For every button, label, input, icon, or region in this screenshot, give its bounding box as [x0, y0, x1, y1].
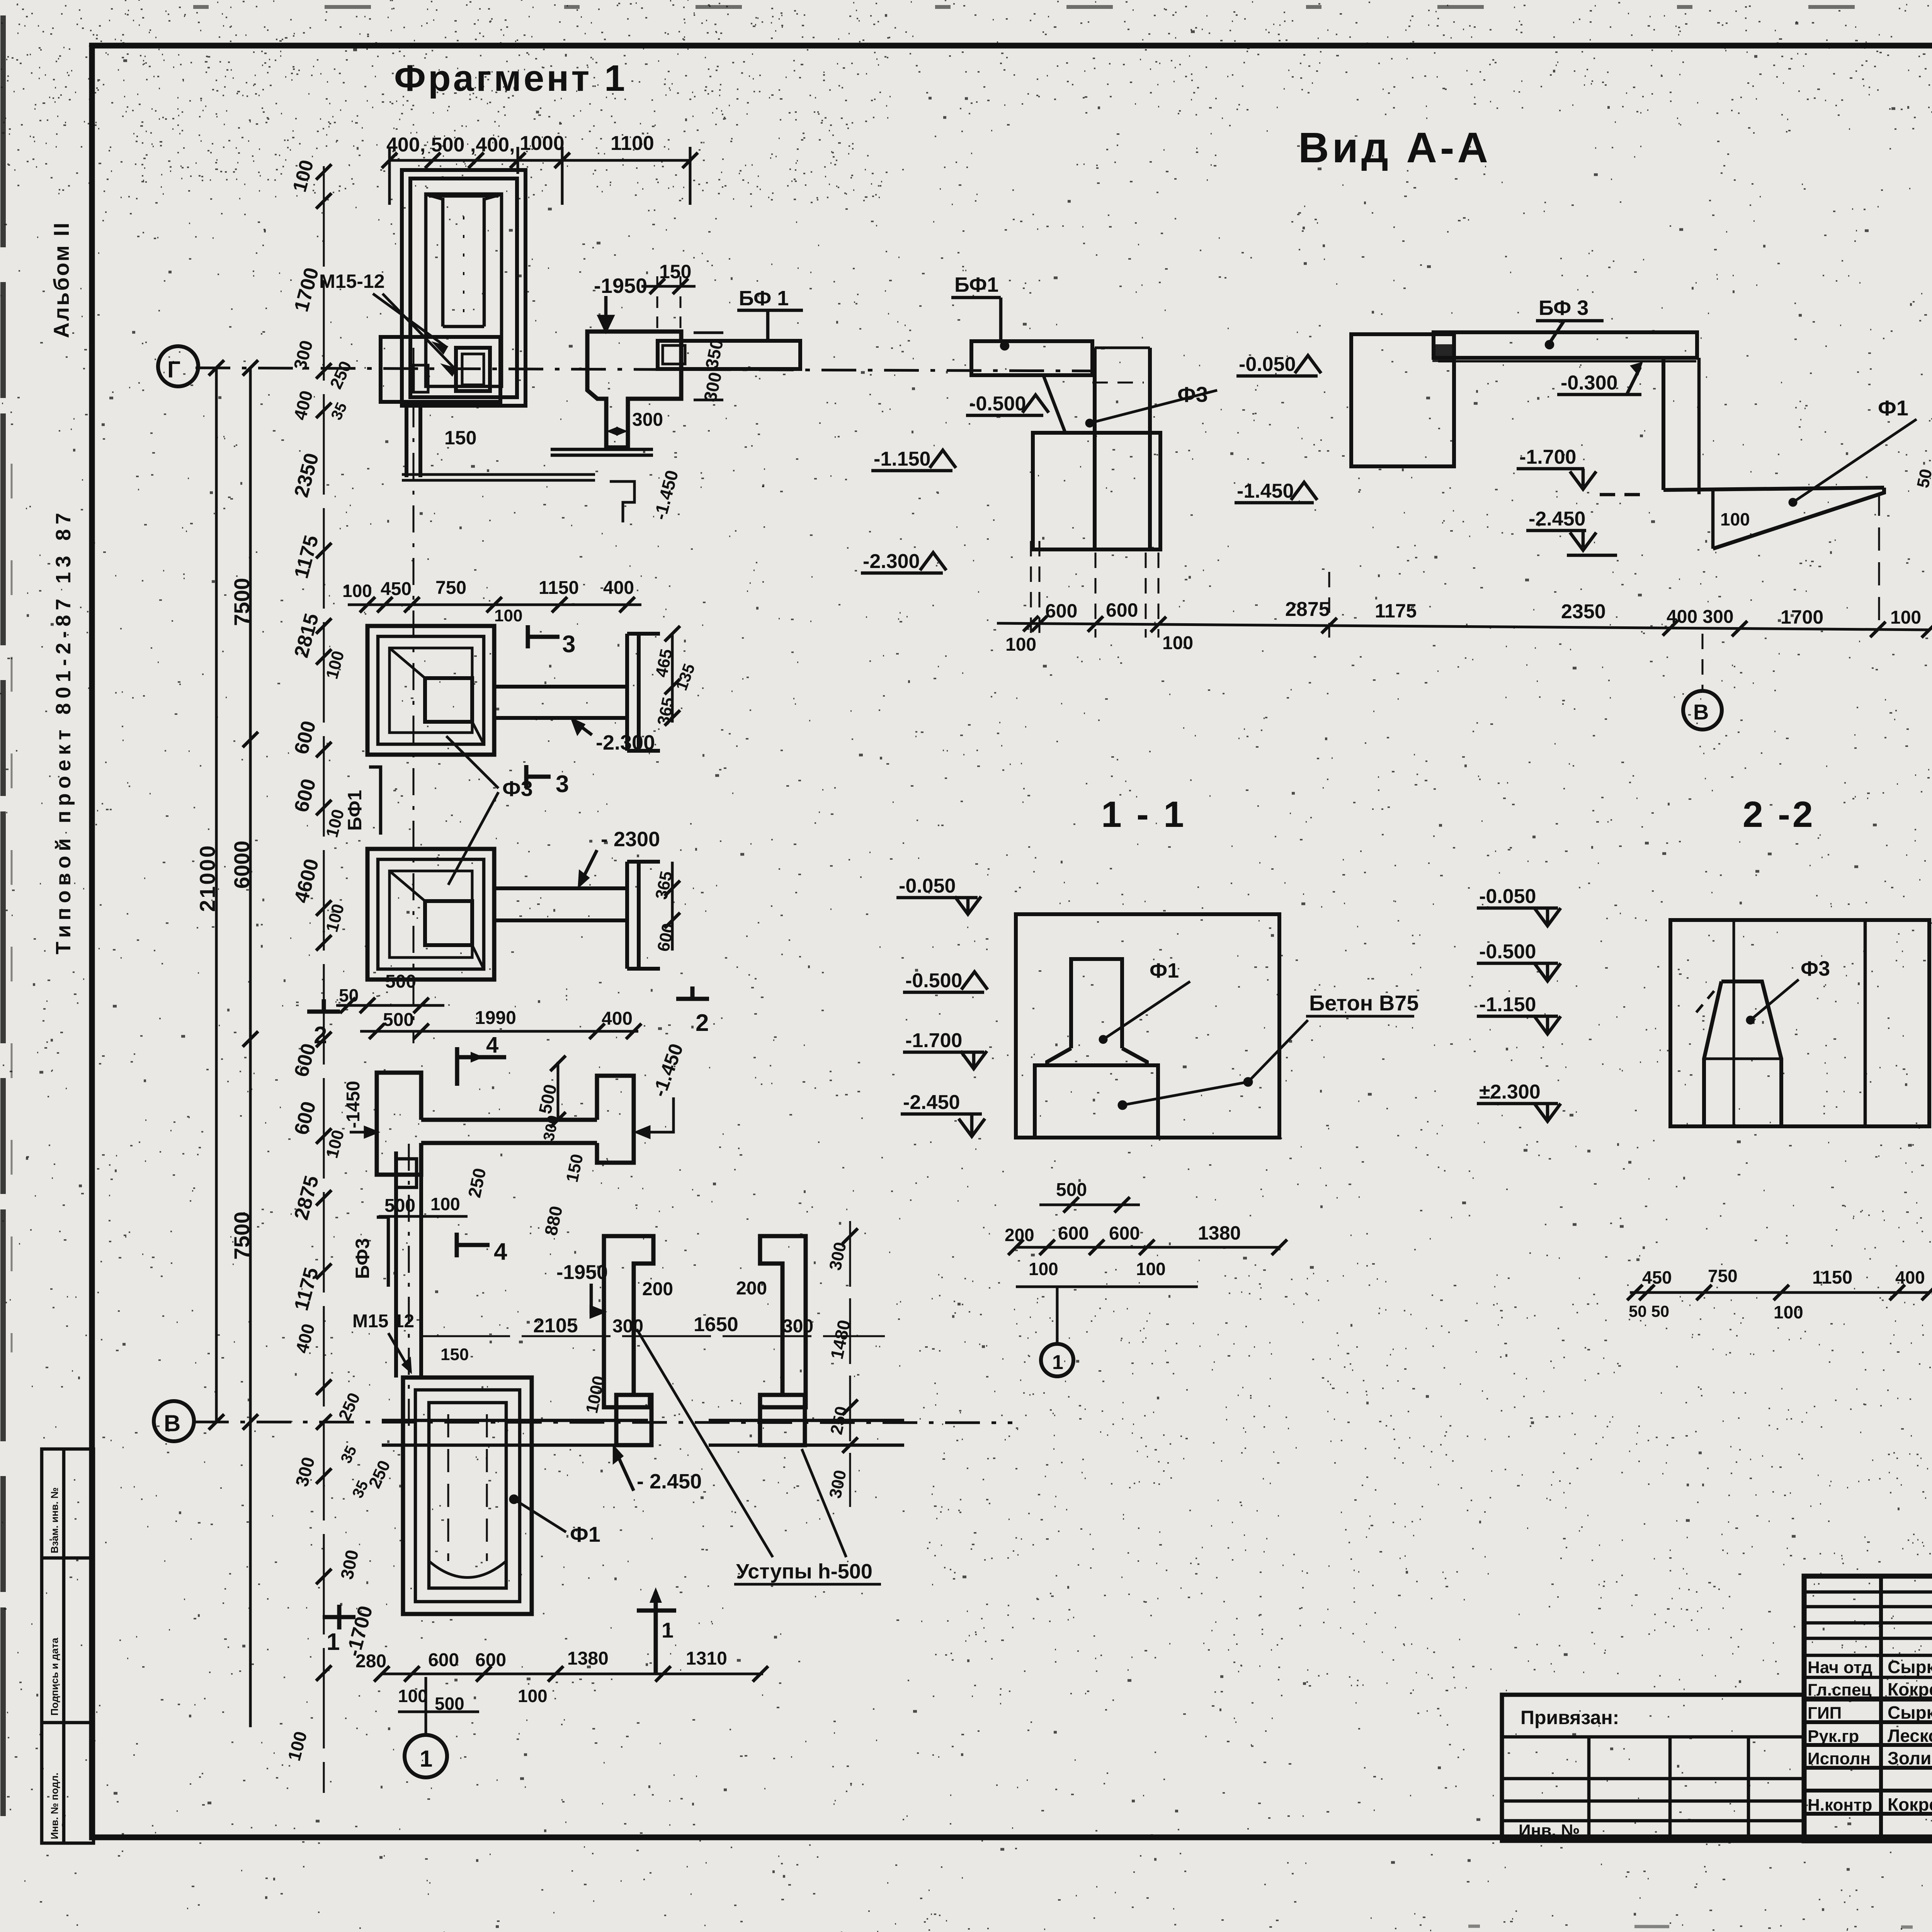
svg-text:100: 100: [398, 1686, 428, 1706]
BF1 rotated label with bracket: [344, 767, 381, 835]
svg-text:100: 100: [1774, 1302, 1803, 1322]
svg-text:1650: 1650: [694, 1313, 738, 1336]
svg-text:Инв. №: Инв. №: [1519, 1821, 1580, 1840]
svg-text:4: 4: [486, 1032, 498, 1058]
svg-text:-1.150: -1.150: [874, 448, 930, 470]
svg-text:150: 150: [444, 427, 476, 449]
svg-text:Инв. № подл.: Инв. № подл.: [49, 1772, 60, 1839]
svg-text:-1450: -1450: [343, 1081, 364, 1128]
wall strip below: [405, 402, 408, 477]
stakan small rect: [456, 348, 490, 391]
svg-text:Ф1: Ф1: [1150, 959, 1179, 982]
svg-text:100: 100: [430, 1194, 460, 1214]
bar to right: [494, 685, 627, 689]
svg-text:100: 100: [518, 1686, 548, 1706]
axis B wall band: [382, 1395, 904, 1445]
F1 wedge footing: [1663, 488, 1884, 490]
svg-text:100: 100: [1890, 607, 1921, 628]
right side small dims of square1: [652, 626, 699, 727]
svg-text:1150: 1150: [1812, 1267, 1852, 1288]
outer rect: [402, 170, 526, 406]
svg-text:280: 280: [355, 1651, 386, 1672]
column: [1093, 348, 1097, 549]
svg-text:100: 100: [342, 581, 372, 601]
svg-text:750: 750: [1708, 1266, 1738, 1286]
label M15-12 with leaders: [319, 270, 455, 374]
svg-text:Гл.спец: Гл.спец: [1808, 1680, 1872, 1699]
svg-text:4: 4: [494, 1238, 507, 1265]
svg-text:БФ 3: БФ 3: [1539, 296, 1588, 320]
svg-text:500: 500: [1056, 1180, 1087, 1200]
svg-text:Золина: Золина: [1888, 1748, 1932, 1768]
long dim line through middle: [421, 1335, 885, 1337]
svg-text:БФ 1: БФ 1: [739, 287, 789, 310]
svg-text:-0.050: -0.050: [899, 875, 956, 897]
svg-text:Ф3: Ф3: [502, 776, 533, 801]
svg-text:-0.500: -0.500: [1479, 940, 1536, 963]
horizontals left stack: [1804, 1590, 1932, 1594]
svg-text:М15 12: М15 12: [352, 1311, 414, 1332]
svg-text:1: 1: [662, 1618, 673, 1642]
svg-text:-1.150: -1.150: [1479, 993, 1536, 1016]
svg-text:1990: 1990: [475, 1008, 516, 1028]
svg-text:600: 600: [1058, 1223, 1089, 1244]
svg-text:-0.300: -0.300: [1561, 372, 1617, 394]
section flag 2 right: [676, 986, 709, 1036]
svg-text:В: В: [1693, 700, 1709, 724]
svg-text:-2.300: -2.300: [863, 550, 920, 573]
svg-text:1150: 1150: [539, 578, 579, 598]
svg-text:БФ3: БФ3: [352, 1238, 373, 1279]
svg-text:Лесковская: Лесковская: [1888, 1726, 1932, 1746]
svg-text:500: 500: [385, 971, 416, 992]
BF3 beam: [1434, 332, 1697, 358]
section flag 4 lower: [457, 1233, 507, 1265]
fine chain rotated labels: [284, 158, 377, 1763]
svg-text:Ф1: Ф1: [570, 1522, 600, 1546]
150 dim: [641, 285, 696, 288]
svg-text:Сыркин: Сыркин: [1888, 1657, 1932, 1677]
wall line under BF1: [551, 448, 653, 451]
svg-text:100: 100: [1720, 509, 1750, 529]
7500/6000/7500 dim line: [249, 368, 252, 1727]
svg-text:-0.500: -0.500: [905, 969, 962, 992]
verticals: [1879, 1576, 1883, 1841]
svg-text:3: 3: [556, 771, 569, 798]
svg-text:600: 600: [428, 1650, 459, 1670]
svg-text:300: 300: [782, 1316, 813, 1337]
svg-text:-2.450: -2.450: [1529, 508, 1585, 530]
svg-text:600: 600: [1106, 599, 1138, 621]
svg-text:-1950: -1950: [556, 1261, 608, 1284]
svg-text:100: 100: [1162, 633, 1193, 653]
axis circle Г: [158, 346, 198, 386]
margin stamp boxes bottom-left: [42, 1449, 94, 1843]
svg-text:Кокреб: Кокреб: [1888, 1794, 1932, 1815]
svg-text:100: 100: [1136, 1259, 1166, 1279]
svg-text:450: 450: [381, 579, 412, 599]
svg-text:600: 600: [1045, 600, 1077, 622]
svg-text:150: 150: [440, 1345, 469, 1364]
innermost prism: [441, 198, 445, 327]
svg-text:Взам. инв. №: Взам. инв. №: [49, 1487, 60, 1553]
-2.300 label with arrow (upper): [573, 720, 655, 754]
svg-text:1100: 1100: [611, 132, 654, 155]
svg-text:500: 500: [384, 1196, 415, 1216]
svg-text:В: В: [164, 1410, 180, 1436]
svg-text:1: 1: [327, 1629, 340, 1655]
svg-text:-1.450: -1.450: [1237, 480, 1294, 502]
svg-text:50 50: 50 50: [1629, 1302, 1669, 1320]
svg-text:- 2.450: - 2.450: [637, 1470, 702, 1493]
bottom dims: [1630, 1291, 1929, 1294]
svg-text:450: 450: [1642, 1267, 1672, 1287]
svg-text:БФ1: БФ1: [954, 273, 998, 296]
slab: [971, 341, 1160, 549]
fine chain dim line: [323, 166, 325, 1793]
svg-text:Вид А-А: Вид А-А: [1298, 124, 1491, 172]
svg-text:Исполн: Исполн: [1808, 1749, 1871, 1768]
inner glass rect: [426, 194, 502, 386]
-2300 label above square2 bar: [580, 828, 660, 885]
base block: [1033, 433, 1160, 549]
svg-text:750: 750: [435, 578, 466, 598]
svg-text:500: 500: [383, 1010, 414, 1030]
svg-text:2 -2: 2 -2: [1743, 794, 1815, 835]
top plan detail: column footing with glass (stakan): [381, 170, 653, 1043]
svg-text:7500: 7500: [230, 1211, 254, 1260]
svg-text:Нач отд: Нач отд: [1808, 1658, 1872, 1677]
overall 21000 dim line: [215, 368, 218, 1422]
svg-text:400: 400: [603, 578, 634, 598]
svg-text:1310: 1310: [686, 1648, 727, 1669]
F3 label with leaders: [446, 736, 533, 885]
svg-text:-0.050: -0.050: [1239, 353, 1296, 376]
F3 pedestal: [1696, 920, 1865, 1126]
axis circle 1: [1041, 1344, 1073, 1376]
svg-text:600: 600: [1109, 1223, 1140, 1244]
svg-text:Рук.гр: Рук.гр: [1808, 1727, 1859, 1746]
svg-text:-1.700: -1.700: [1519, 446, 1576, 468]
section flag 2 left: [307, 999, 340, 1049]
pit outline: [1016, 914, 1279, 1138]
svg-text:3: 3: [562, 631, 575, 658]
svg-text:100: 100: [494, 606, 522, 625]
left attachment box of title block: [1502, 1695, 1804, 1841]
svg-text:500: 500: [435, 1694, 464, 1714]
bottom ledge rect: [381, 337, 500, 402]
section flag 1 (right): [637, 1587, 676, 1673]
svg-text:7500: 7500: [230, 578, 254, 626]
column stub below left flange: [396, 1159, 417, 1187]
svg-text:Бетон В75: Бетон В75: [1309, 991, 1419, 1015]
bottom dim row: [997, 541, 1930, 691]
svg-text:1380: 1380: [1198, 1222, 1241, 1244]
section flag 3 upper: [528, 625, 575, 658]
elevation marks: [966, 393, 1049, 415]
300 stem dim dotted: [609, 430, 626, 432]
elevation marks center: [1236, 353, 1321, 376]
svg-text:Фрагмент 1: Фрагмент 1: [394, 58, 627, 99]
svg-text:1700: 1700: [1781, 606, 1823, 628]
svg-text:200: 200: [736, 1278, 767, 1299]
axis circle 1: [405, 1677, 447, 1777]
axis circle B below: [1683, 691, 1722, 730]
svg-text:1175: 1175: [1375, 600, 1417, 622]
body polygon: [587, 332, 681, 447]
bracket shape pair (column cut plan): [604, 1236, 806, 1407]
elevation marks: [896, 875, 981, 914]
bottom plan group: [352, 1217, 388, 1287]
svg-text:2350: 2350: [1561, 600, 1606, 623]
500 vertical dim right of bar: [557, 1062, 560, 1121]
svg-text:2: 2: [314, 1022, 327, 1049]
svg-text:100: 100: [1029, 1259, 1058, 1279]
nested square footing #1: [367, 626, 660, 755]
H-shaped wall plan between axes: [377, 1073, 634, 1187]
bracket bases: [616, 1395, 651, 1445]
BF1 profile at right of top footing: [587, 261, 803, 522]
leader arrow of -1950: [604, 296, 608, 325]
axis line Г: [196, 368, 1094, 371]
big footing plan (F1): [403, 1378, 532, 1614]
footing F1: [1035, 959, 1158, 1138]
svg-text:Альбом II: Альбом II: [49, 221, 73, 338]
svg-text:-1950: -1950: [594, 274, 647, 298]
svg-text:200: 200: [1005, 1225, 1034, 1245]
svg-text:БФ1: БФ1: [344, 790, 366, 831]
top dimension row 400,500,400,1000,1100: [388, 147, 692, 205]
section flag 3 lower: [526, 765, 569, 798]
horizontal bar: [658, 341, 800, 369]
svg-text:2105: 2105: [533, 1315, 578, 1337]
svg-text:ГИП: ГИП: [1808, 1704, 1842, 1723]
svg-text:1: 1: [1052, 1351, 1063, 1374]
end flange: [625, 634, 629, 751]
svg-text:Н.контр: Н.контр: [1808, 1796, 1872, 1815]
svg-text:21000: 21000: [195, 844, 219, 912]
anchor bolt rect: [413, 365, 428, 392]
50 500 dims below square2: [336, 971, 444, 1013]
350/300 tick rows: [694, 332, 723, 334]
svg-text:Ф3: Ф3: [1801, 957, 1830, 980]
dims above square1: [342, 578, 641, 625]
svg-text:1000: 1000: [520, 132, 565, 155]
svg-text:Ф1: Ф1: [1878, 396, 1908, 420]
svg-text:-0.050: -0.050: [1479, 885, 1536, 908]
axis line В: [194, 1422, 1012, 1423]
svg-text:2875: 2875: [1285, 598, 1330, 621]
svg-text:1: 1: [420, 1746, 432, 1772]
second rect: [410, 179, 517, 397]
svg-text:-0.500: -0.500: [969, 393, 1026, 415]
svg-text:2: 2: [696, 1010, 709, 1036]
svg-text:-2.300: -2.300: [596, 731, 655, 754]
svg-text:Типовой проект 801-2-87 13: Типовой проект 801-2-87 13 87: [52, 508, 75, 954]
svg-text:400 300: 400 300: [1667, 607, 1734, 627]
section flag 1 (left margin): [323, 1605, 355, 1655]
svg-text:- 2300: - 2300: [601, 828, 660, 851]
svg-text:400: 400: [1895, 1267, 1925, 1287]
svg-text:Сыркин: Сыркин: [1888, 1702, 1932, 1723]
svg-text:600: 600: [475, 1650, 506, 1670]
bottom dim rows of plan: [355, 1648, 768, 1714]
axis circle В: [154, 1401, 194, 1441]
long wall double line: [402, 473, 595, 476]
nested square footing #2: [367, 849, 660, 980]
svg-text:Привязан:: Привязан:: [1520, 1707, 1619, 1728]
left margin vertical texts: [42, 221, 94, 1843]
trapezoid support: [1043, 375, 1095, 433]
svg-text:±2.300: ±2.300: [1479, 1081, 1541, 1103]
svg-text:400, 500 ,400,: 400, 500 ,400,: [386, 134, 515, 156]
middle pier: [1351, 332, 1884, 630]
svg-text:200: 200: [642, 1279, 673, 1299]
dim row 500 1990 400: [360, 1008, 641, 1039]
svg-text:Г: Г: [167, 357, 180, 383]
section flag 4 upper: [457, 1032, 506, 1086]
svg-text:-1.700: -1.700: [905, 1029, 962, 1052]
right pier: [1662, 358, 1665, 490]
svg-text:Уступы h-500: Уступы h-500: [736, 1560, 872, 1583]
svg-text:6000: 6000: [230, 840, 254, 889]
svg-text:100: 100: [1005, 634, 1036, 655]
elevation marks: [1477, 885, 1561, 926]
svg-text:300: 300: [632, 410, 663, 430]
svg-text:-2.450: -2.450: [903, 1091, 960, 1114]
svg-text:400: 400: [602, 1009, 633, 1029]
svg-text:М15-12: М15-12: [319, 270, 385, 292]
svg-text:1 - 1: 1 - 1: [1101, 794, 1186, 835]
svg-text:Подпись и дата: Подпись и дата: [49, 1638, 60, 1716]
svg-text:1380: 1380: [567, 1648, 609, 1669]
svg-text:Кокреб: Кокреб: [1888, 1679, 1932, 1699]
